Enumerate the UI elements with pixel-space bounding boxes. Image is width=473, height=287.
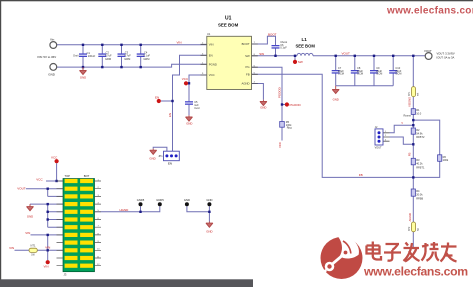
svg-text:GCM: GCM xyxy=(338,72,344,76)
svg-text:VIN: 5V to 36V: VIN: 5V to 36V xyxy=(37,55,56,59)
svg-text:SEE BOM: SEE BOM xyxy=(296,44,316,49)
svg-text:GND: GND xyxy=(27,214,33,218)
svg-text:RFBT2: RFBT2 xyxy=(416,135,425,139)
svg-text:VOSNS: VOSNS xyxy=(408,97,412,107)
svg-text:GND: GND xyxy=(333,97,339,101)
svg-text:GCM: GCM xyxy=(395,72,401,76)
svg-text:VOUT: VOUT xyxy=(375,146,382,149)
svg-text:100uF: 100uF xyxy=(88,54,96,58)
svg-text:J3: J3 xyxy=(64,272,67,276)
svg-text:VCC: VCC xyxy=(36,177,43,181)
svg-text:EN: EN xyxy=(168,113,172,117)
svg-text:www.elecfans.com: www.elecfans.com xyxy=(363,265,468,279)
svg-text:GRM: GRM xyxy=(105,57,111,61)
svg-text:RFBT1: RFBT1 xyxy=(416,165,425,169)
svg-text:EN: EN xyxy=(155,95,159,99)
svg-text:GND5: GND5 xyxy=(156,198,164,202)
svg-text:GND: GND xyxy=(186,121,192,125)
svg-text:GCM: GCM xyxy=(376,72,382,76)
svg-text:SW: SW xyxy=(245,54,250,58)
svg-text:GND: GND xyxy=(149,156,155,160)
svg-text:TOP: TOP xyxy=(65,174,71,178)
svg-text:VOUT: VOUT xyxy=(342,52,351,56)
svg-text:VCC: VCC xyxy=(278,142,282,148)
svg-text:0.1uF: 0.1uF xyxy=(280,46,287,50)
svg-text:BOT: BOT xyxy=(84,174,90,178)
svg-text:GND: GND xyxy=(206,230,212,234)
svg-text:EN: EN xyxy=(168,161,172,165)
svg-text:BOOT: BOOT xyxy=(268,32,277,36)
svg-text:VIN: VIN xyxy=(45,246,50,250)
svg-text:GND5: GND5 xyxy=(137,198,145,202)
svg-text:GND: GND xyxy=(48,73,56,77)
svg-text:BOOT: BOOT xyxy=(242,42,250,46)
svg-text:PGND: PGND xyxy=(209,62,217,66)
svg-text:20.0k: 20.0k xyxy=(416,193,423,197)
svg-text:RFBB: RFBB xyxy=(416,196,423,200)
svg-text:Rosns: Rosns xyxy=(403,113,411,117)
svg-text:VCC: VCC xyxy=(51,156,58,160)
svg-text:Rpg: Rpg xyxy=(287,126,292,130)
svg-text:Cvcc: Cvcc xyxy=(194,106,200,110)
svg-text:GND: GND xyxy=(80,76,86,80)
svg-text:R4: R4 xyxy=(416,189,420,193)
svg-text:AGND: AGND xyxy=(242,82,250,86)
svg-text:R3: R3 xyxy=(416,158,420,162)
svg-text:VOUT: VOUT xyxy=(424,49,432,53)
svg-text:GRM: GRM xyxy=(143,57,149,61)
svg-text:AGND: AGND xyxy=(408,213,412,221)
svg-text:R2: R2 xyxy=(416,128,420,132)
svg-text:GND: GND xyxy=(184,198,190,202)
svg-text:NT1: NT1 xyxy=(31,244,36,248)
svg-text:GND: GND xyxy=(260,106,266,110)
svg-text:NT1: NT1 xyxy=(409,91,411,96)
svg-text:NT2: NT2 xyxy=(409,226,411,231)
svg-text:VOUT: VOUT xyxy=(17,187,26,191)
svg-text:FB: FB xyxy=(246,72,250,76)
svg-text:SEE BOM: SEE BOM xyxy=(218,23,239,28)
svg-text:U1: U1 xyxy=(207,32,211,36)
svg-text:GCM: GCM xyxy=(357,72,363,76)
svg-text:net: net xyxy=(417,92,420,96)
svg-text:SW: SW xyxy=(298,60,303,64)
svg-text:PG: PG xyxy=(246,65,250,69)
svg-text:HGND: HGND xyxy=(120,208,130,212)
svg-text:PGOOD: PGOOD xyxy=(278,87,282,98)
svg-text:Vin: Vin xyxy=(50,37,55,41)
svg-text:GRM: GRM xyxy=(124,57,130,61)
svg-text:SW: SW xyxy=(259,52,264,56)
svg-text:VIN: VIN xyxy=(9,246,14,250)
svg-text:FB: FB xyxy=(359,173,363,177)
svg-text:VIN: VIN xyxy=(44,265,49,269)
svg-text:EN: EN xyxy=(209,53,213,57)
svg-text:Omit: Omit xyxy=(73,54,79,58)
svg-text:www.elecfans.com: www.elecfans.com xyxy=(386,6,473,17)
svg-text:10.0: 10.0 xyxy=(416,111,422,115)
svg-text:40.2k: 40.2k xyxy=(416,162,423,166)
svg-text:54.9k: 54.9k xyxy=(416,131,423,135)
svg-text:PGOOD: PGOOD xyxy=(290,103,302,107)
svg-text:VOUT: 3.3V/5V: VOUT: 3.3V/5V xyxy=(437,52,455,56)
svg-text:100k: 100k xyxy=(443,158,449,162)
svg-text:VCC: VCC xyxy=(209,73,215,77)
svg-text:L1: L1 xyxy=(302,37,308,42)
svg-text:JP1: JP1 xyxy=(158,155,163,158)
svg-text:FB: FB xyxy=(408,153,412,157)
svg-text:IOUT: 0A to 3A: IOUT: 0A to 3A xyxy=(437,55,455,59)
svg-text:VIN: VIN xyxy=(177,41,182,45)
svg-text:VIN: VIN xyxy=(25,231,30,235)
svg-text:U1: U1 xyxy=(225,16,232,22)
svg-text:VCC: VCC xyxy=(182,77,189,81)
svg-text:GND: GND xyxy=(206,198,212,202)
svg-text:VIN: VIN xyxy=(209,42,214,46)
